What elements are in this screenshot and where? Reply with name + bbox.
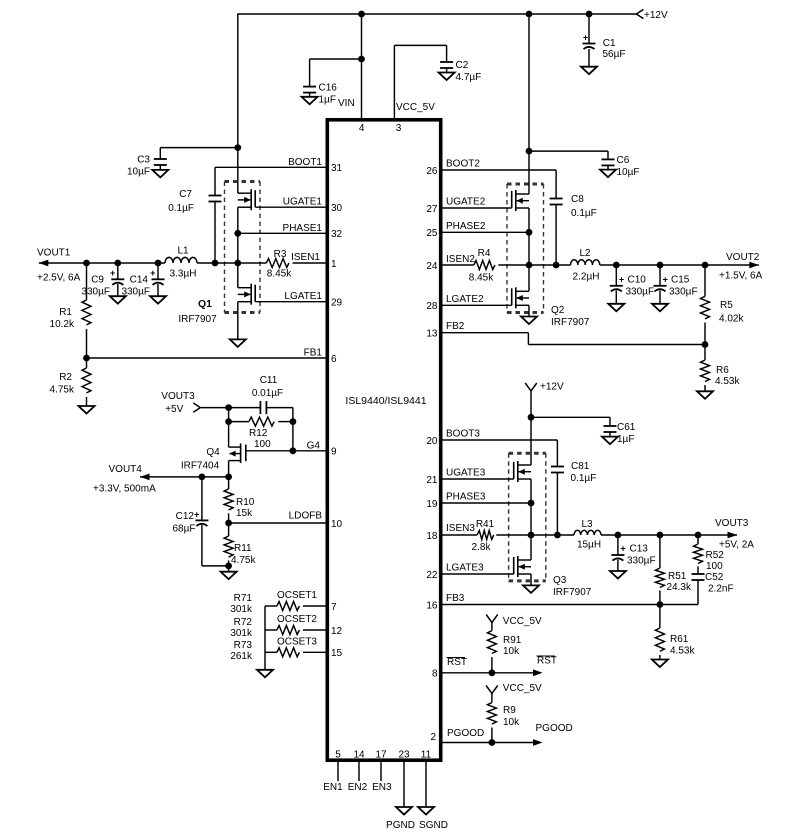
- svg-text:2.2nF: 2.2nF: [708, 584, 734, 595]
- svg-text:4.7µF: 4.7µF: [456, 72, 482, 83]
- svg-text:C8: C8: [571, 194, 584, 205]
- svg-text:330µF: 330µF: [121, 287, 150, 298]
- svg-text:R12: R12: [249, 428, 268, 439]
- svg-text:PHASE2: PHASE2: [446, 221, 486, 232]
- svg-text:R51: R51: [668, 571, 687, 582]
- wire SGND pin 11: [419, 750, 448, 832]
- svg-text:8: 8: [432, 669, 438, 680]
- ground PGND: [396, 807, 412, 815]
- resistor R2 4.75k: [50, 358, 91, 406]
- svg-text:VCC_5V: VCC_5V: [396, 102, 435, 113]
- svg-text:IRF7907: IRF7907: [178, 314, 217, 325]
- svg-text:+: +: [620, 544, 625, 554]
- capacitor C10 330uF: [610, 265, 654, 304]
- svg-text:R5: R5: [720, 300, 733, 311]
- ground below C13: [610, 571, 626, 579]
- svg-text:RST: RST: [537, 656, 557, 667]
- svg-text:R1: R1: [59, 307, 72, 318]
- capacitor C61 1uF: [528, 414, 636, 445]
- svg-text:23: 23: [398, 750, 410, 761]
- ground below C16: [302, 97, 318, 105]
- capacitor C81 0.1uF: [551, 461, 596, 535]
- capacitor C8 0.1uF: [550, 194, 597, 265]
- resistor R61 4.53k: [655, 605, 695, 660]
- svg-text:EN3: EN3: [372, 782, 392, 793]
- svg-text:C10: C10: [628, 275, 647, 286]
- svg-text:0.1µF: 0.1µF: [168, 203, 194, 214]
- ground SGND: [418, 807, 434, 815]
- svg-text:LGATE1: LGATE1: [284, 291, 322, 302]
- svg-text:13: 13: [426, 329, 438, 340]
- svg-text:L1: L1: [177, 246, 189, 257]
- svg-text:12: 12: [331, 626, 343, 637]
- capacitor C3 10uF: [127, 144, 241, 177]
- svg-text:1: 1: [331, 259, 337, 270]
- svg-text:R71: R71: [234, 593, 253, 604]
- svg-text:UGATE1: UGATE1: [283, 197, 323, 208]
- resistor R73 261k / wire OCSET3 pin 15: [230, 636, 342, 662]
- ground below C15: [652, 304, 668, 312]
- svg-text:+: +: [663, 275, 668, 285]
- resistor R6 4.53k: [701, 345, 741, 392]
- resistor R91 10k: [487, 631, 521, 673]
- svg-text:+5V: +5V: [165, 404, 183, 415]
- svg-text:VOUT1: VOUT1: [37, 248, 71, 259]
- svg-text:C81: C81: [571, 461, 590, 472]
- wire LGATE3 pin 22: [426, 563, 513, 581]
- label Q3 IRF7907: [553, 575, 592, 598]
- capacitor C13 330uF: [611, 535, 655, 571]
- svg-text:SGND: SGND: [419, 820, 448, 831]
- svg-text:10k: 10k: [503, 646, 520, 657]
- ground below C14: [150, 296, 166, 304]
- svg-text:31: 31: [331, 163, 343, 174]
- svg-text:Q3: Q3: [553, 575, 567, 586]
- ground below Q1: [230, 339, 246, 347]
- svg-text:IRF7404: IRF7404: [181, 461, 220, 472]
- wire RST pin 8: [432, 656, 557, 680]
- svg-text:IRF7907: IRF7907: [551, 317, 590, 328]
- svg-text:+: +: [110, 268, 115, 278]
- svg-text:C2: C2: [456, 60, 469, 71]
- svg-text:PHASE1: PHASE1: [283, 223, 323, 234]
- svg-text:6: 6: [331, 354, 337, 365]
- svg-text:5: 5: [335, 750, 341, 761]
- wire +12V vertical to Q2: [528, 14, 530, 194]
- ground below C61: [602, 437, 618, 445]
- wire PHASE1 pin 32: [234, 207, 342, 288]
- resistor R51 24.3k: [655, 535, 692, 605]
- svg-text:R6: R6: [716, 365, 729, 376]
- svg-text:IRF7907: IRF7907: [553, 587, 592, 598]
- svg-text:BOOT2: BOOT2: [446, 159, 480, 170]
- svg-text:PGND: PGND: [386, 820, 415, 831]
- svg-text:OCSET2: OCSET2: [277, 614, 317, 625]
- svg-text:4.53k: 4.53k: [670, 646, 695, 657]
- svg-text:R10: R10: [236, 497, 255, 508]
- svg-text:15µH: 15µH: [577, 540, 601, 551]
- wire VIN pin 4: [338, 14, 365, 134]
- svg-text:C61: C61: [617, 422, 636, 433]
- wire BOOT2 pin 26: [426, 159, 556, 199]
- svg-text:10: 10: [331, 519, 343, 530]
- svg-text:14: 14: [353, 750, 365, 761]
- svg-text:VOUT3: VOUT3: [715, 518, 749, 529]
- svg-text:C14: C14: [130, 275, 149, 286]
- wire FB3 pin 16: [426, 593, 663, 611]
- svg-text:FB2: FB2: [446, 321, 465, 332]
- svg-text:R4: R4: [478, 248, 491, 259]
- wire Q3 source to ground: [530, 574, 532, 585]
- wire G4 pin 9: [246, 440, 337, 457]
- svg-text:3.3µH: 3.3µH: [170, 269, 197, 280]
- svg-text:FB1: FB1: [304, 348, 323, 359]
- transistor Q3 dashed outline: [509, 452, 546, 455]
- capacitor C52 2.2nF: [660, 572, 734, 605]
- svg-text:330µF: 330µF: [81, 287, 110, 298]
- ground below C6: [600, 170, 616, 178]
- ground below Q3: [523, 585, 539, 593]
- junction dots on +12V rail: [358, 11, 365, 18]
- svg-text:24.3k: 24.3k: [667, 582, 692, 593]
- svg-text:+2.5V, 6A: +2.5V, 6A: [37, 273, 81, 284]
- svg-text:ISEN2: ISEN2: [446, 254, 475, 265]
- transistor Q2 upper MOSFET: [512, 190, 529, 211]
- wire ISEN1 pin 1: [291, 252, 337, 270]
- junction dots on VOUT2 rail: [613, 262, 620, 269]
- transistor Q2 lower MOSFET: [512, 287, 529, 308]
- svg-text:2.2µH: 2.2µH: [573, 272, 600, 283]
- svg-text:11: 11: [421, 750, 432, 761]
- svg-text:LGATE2: LGATE2: [446, 294, 484, 305]
- svg-text:R3: R3: [274, 249, 287, 260]
- transistor Q1 upper MOSFET: [238, 189, 255, 210]
- svg-text:9: 9: [331, 447, 337, 458]
- svg-text:R2: R2: [59, 372, 72, 383]
- svg-text:C16: C16: [319, 83, 338, 94]
- svg-text:VOUT3: VOUT3: [161, 391, 195, 402]
- svg-text:ISEN1: ISEN1: [291, 252, 320, 263]
- node VOUT3 rail: [531, 518, 754, 551]
- capacitor C1 56uF: [583, 14, 626, 67]
- resistor R4 8.45k / wire ISEN2 pin 24: [426, 248, 529, 284]
- svg-text:30: 30: [331, 203, 343, 214]
- svg-text:7: 7: [331, 602, 337, 613]
- resistor R72 301k / wire OCSET2 pin 12: [230, 614, 342, 639]
- svg-text:BOOT3: BOOT3: [446, 429, 480, 440]
- svg-text:4.53k: 4.53k: [715, 376, 740, 387]
- transistor Q3 upper MOSFET: [514, 461, 531, 482]
- svg-text:R41: R41: [476, 519, 495, 530]
- capacitor C15 330uF: [654, 265, 698, 304]
- junction dots on VOUT3 rail: [615, 532, 622, 539]
- ground below C3: [152, 170, 168, 178]
- svg-text:+3.3V, 500mA: +3.3V, 500mA: [93, 484, 156, 495]
- svg-text:PGOOD: PGOOD: [536, 723, 573, 734]
- wire PGND pin 23: [386, 750, 415, 832]
- wire VOUT1 rail / node VOUT1: [37, 248, 266, 284]
- wire PHASE2 pin 25: [426, 208, 532, 291]
- svg-text:+: +: [583, 33, 588, 43]
- svg-text:R73: R73: [234, 640, 253, 651]
- svg-text:LGATE3: LGATE3: [446, 563, 484, 574]
- svg-text:C11: C11: [260, 375, 278, 386]
- svg-text:4: 4: [359, 123, 365, 134]
- svg-text:28: 28: [426, 301, 438, 312]
- svg-text:Q1: Q1: [198, 298, 212, 310]
- svg-text:24: 24: [426, 261, 438, 272]
- svg-text:+12V: +12V: [540, 382, 564, 393]
- wire EN1 pin 5: [323, 750, 343, 794]
- ground below Q2: [521, 317, 537, 325]
- svg-text:PHASE3: PHASE3: [446, 492, 486, 503]
- svg-text:C52: C52: [705, 572, 724, 583]
- wire UGATE2 pin 27: [426, 197, 511, 215]
- junction dots on VOUT1 rail: [83, 260, 90, 267]
- svg-text:+: +: [619, 275, 624, 285]
- svg-text:ISL9440/ISL9441: ISL9440/ISL9441: [345, 395, 426, 407]
- svg-text:ISEN3: ISEN3: [446, 523, 475, 534]
- svg-text:19: 19: [426, 499, 438, 510]
- transistor Q4 IRF7404: [181, 422, 246, 477]
- svg-text:10k: 10k: [503, 717, 520, 728]
- node +12V top rail: [237, 9, 668, 21]
- resistor R52 100: [694, 535, 725, 574]
- svg-text:301k: 301k: [230, 604, 253, 615]
- wire OCSET bus to ground: [264, 606, 266, 670]
- transistor Q3 lower MOSFET: [514, 556, 531, 577]
- svg-text:+: +: [194, 510, 199, 520]
- svg-text:16: 16: [426, 600, 438, 611]
- wire FB2 pin 13: [426, 321, 708, 348]
- svg-text:OCSET1: OCSET1: [277, 590, 317, 601]
- capacitor C11 0.01uF: [225, 375, 293, 414]
- resistor R11 4.75k: [224, 523, 256, 572]
- svg-text:C9: C9: [91, 275, 104, 286]
- svg-text:UGATE2: UGATE2: [446, 197, 486, 208]
- label Q2 IRF7907: [551, 305, 590, 328]
- resistor R9 10k: [487, 703, 520, 743]
- svg-text:+: +: [150, 268, 155, 278]
- svg-text:+1.5V, 6A: +1.5V, 6A: [719, 271, 763, 282]
- wire EN3 pin 17: [372, 750, 392, 794]
- resistor R5 4.02k: [701, 265, 745, 345]
- svg-text:R72: R72: [234, 617, 253, 628]
- svg-text:18: 18: [426, 531, 438, 542]
- inductor L1 3.3uH: [165, 246, 197, 280]
- node VOUT4 output: [93, 464, 232, 495]
- svg-text:27: 27: [426, 204, 438, 215]
- svg-text:VIN: VIN: [338, 98, 355, 109]
- svg-text:C12: C12: [176, 511, 195, 522]
- svg-text:2: 2: [430, 732, 436, 743]
- svg-text:R91: R91: [503, 635, 522, 646]
- capacitor C7 0.1uF: [168, 189, 221, 263]
- svg-text:21: 21: [426, 475, 438, 486]
- svg-text:330µF: 330µF: [627, 556, 656, 567]
- svg-text:R9: R9: [503, 705, 516, 716]
- ground below C2: [439, 73, 455, 81]
- svg-text:17: 17: [375, 750, 387, 761]
- wire EN2 pin 14: [348, 750, 368, 794]
- svg-text:8.45k: 8.45k: [469, 273, 494, 284]
- svg-text:BOOT1: BOOT1: [288, 157, 322, 168]
- wire UGATE1 pin 30: [255, 197, 342, 214]
- svg-text:G4: G4: [307, 440, 321, 451]
- svg-text:C7: C7: [179, 189, 192, 200]
- resistor R12 100: [225, 408, 296, 451]
- svg-text:68µF: 68µF: [173, 524, 196, 535]
- ground below C9: [110, 296, 126, 304]
- capacitor C12 68uF: [173, 477, 229, 566]
- svg-text:L2: L2: [579, 248, 591, 259]
- svg-text:FB3: FB3: [446, 593, 465, 604]
- transistor Q1 dashed outline: [225, 180, 261, 183]
- svg-text:1µF: 1µF: [319, 95, 336, 106]
- svg-text:EN1: EN1: [323, 782, 343, 793]
- svg-text:330µF: 330µF: [626, 287, 655, 298]
- wire UGATE3 pin 21: [426, 468, 513, 486]
- node VOUT3 +5V input: [161, 391, 228, 415]
- svg-text:OCSET3: OCSET3: [277, 636, 317, 647]
- resistor R41 2.8k / wire ISEN3 pin 18: [426, 519, 531, 553]
- ground below R6: [697, 391, 713, 399]
- svg-text:4.75k: 4.75k: [231, 555, 256, 566]
- svg-text:100: 100: [706, 561, 723, 572]
- capacitor C9 330uF: [81, 263, 124, 298]
- wire LGATE1 pin 29: [255, 291, 342, 308]
- svg-text:L3: L3: [581, 519, 593, 530]
- svg-text:10µF: 10µF: [617, 167, 640, 178]
- svg-text:4.02k: 4.02k: [719, 314, 744, 325]
- resistor R71 301k / wire OCSET1 pin 7: [230, 590, 337, 615]
- svg-text:15k: 15k: [236, 508, 253, 519]
- capacitor C14 330uF: [121, 263, 164, 298]
- node VCC_5V supply for R91: [486, 615, 542, 631]
- op-amp-controller IC U1 ISL9440/ISL9441: [327, 120, 440, 760]
- wire BOOT1 pin 31: [215, 157, 343, 196]
- svg-text:Q4: Q4: [206, 447, 220, 458]
- wire PGOOD pin 2: [430, 723, 572, 746]
- svg-text:2.8k: 2.8k: [472, 542, 492, 553]
- wire PHASE3 pin 19: [426, 479, 534, 560]
- svg-text:25: 25: [426, 228, 438, 239]
- svg-text:29: 29: [331, 298, 343, 309]
- wire LGATE2 pin 28: [426, 294, 511, 312]
- capacitor C2 4.7uF: [440, 45, 481, 83]
- wire VCC_5V pin 3: [394, 45, 446, 134]
- svg-text:56µF: 56µF: [603, 49, 626, 60]
- wire Q2 source to ground: [528, 305, 530, 316]
- svg-text:C15: C15: [671, 275, 690, 286]
- svg-text:UGATE3: UGATE3: [446, 468, 486, 479]
- svg-text:0.1µF: 0.1µF: [571, 208, 597, 219]
- svg-text:+5V, 2A: +5V, 2A: [719, 540, 754, 551]
- svg-text:Q2: Q2: [551, 305, 565, 316]
- resistor R1 10.2k: [50, 263, 91, 358]
- wire FB1 pin 6: [83, 348, 337, 365]
- svg-text:10µF: 10µF: [127, 167, 150, 178]
- svg-text:VOUT4: VOUT4: [109, 464, 143, 475]
- ground below R61: [652, 660, 668, 668]
- svg-text:VCC_5V: VCC_5V: [503, 683, 542, 694]
- label Q1 IRF7907: [178, 298, 217, 325]
- svg-text:8.45k: 8.45k: [267, 269, 292, 280]
- svg-text:PGOOD: PGOOD: [447, 728, 484, 739]
- ground below R2: [79, 406, 95, 414]
- svg-text:LDOFB: LDOFB: [289, 511, 323, 522]
- svg-text:RST: RST: [447, 657, 467, 668]
- ground below C10: [608, 304, 624, 312]
- capacitor C6 10uF: [526, 148, 640, 178]
- inductor L2 2.2uH: [571, 248, 600, 283]
- svg-text:22: 22: [426, 570, 438, 581]
- ground below OCSET bus: [257, 670, 273, 678]
- svg-text:C6: C6: [617, 155, 630, 166]
- svg-text:3: 3: [396, 123, 402, 134]
- svg-text:261k: 261k: [230, 651, 253, 662]
- svg-text:VCC_5V: VCC_5V: [503, 616, 542, 627]
- ground below R11: [221, 572, 237, 580]
- svg-text:301k: 301k: [230, 628, 253, 639]
- svg-text:R61: R61: [670, 634, 689, 645]
- svg-text:C3: C3: [137, 155, 150, 166]
- wire BOOT3 pin 20: [426, 429, 557, 467]
- svg-text:C1: C1: [603, 38, 616, 49]
- svg-text:15: 15: [331, 648, 343, 659]
- resistor R10 15k: [224, 477, 255, 523]
- svg-text:1µF: 1µF: [617, 434, 634, 445]
- svg-text:0.01µF: 0.01µF: [252, 388, 283, 399]
- svg-text:20: 20: [426, 436, 438, 447]
- node VOUT2 rail: [529, 252, 763, 282]
- svg-text:4.75k: 4.75k: [50, 385, 75, 396]
- capacitor C16 1uF: [303, 56, 365, 106]
- svg-text:10.2k: 10.2k: [50, 319, 75, 330]
- wire top-left vertical to Q1: [237, 14, 239, 193]
- svg-text:0.1µF: 0.1µF: [571, 473, 597, 484]
- svg-text:R52: R52: [706, 550, 725, 561]
- svg-text:VOUT2: VOUT2: [726, 252, 760, 263]
- node VCC_5V supply for R9: [486, 683, 542, 703]
- inductor L3 15uH: [574, 519, 601, 551]
- svg-text:+12V: +12V: [644, 10, 668, 21]
- transistor Q2 dashed outline: [507, 183, 544, 186]
- svg-text:100: 100: [254, 439, 271, 450]
- wire Q1 source to ground: [237, 302, 239, 340]
- svg-text:26: 26: [426, 166, 438, 177]
- wire LDOFB pin 10: [225, 511, 342, 530]
- svg-text:C13: C13: [630, 544, 649, 555]
- svg-text:330µF: 330µF: [669, 287, 698, 298]
- ground below C1: [581, 67, 597, 75]
- svg-text:EN2: EN2: [348, 782, 368, 793]
- node +12V supply for Q3: [525, 382, 564, 466]
- svg-text:R11: R11: [234, 543, 252, 554]
- resistor R3 8.45k: [266, 249, 325, 280]
- svg-text:32: 32: [331, 229, 343, 240]
- transistor Q1 lower MOSFET: [238, 284, 255, 305]
